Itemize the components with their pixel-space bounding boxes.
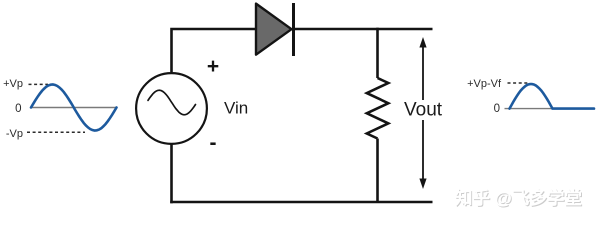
diode D1 triangle — [256, 4, 292, 55]
resistor branch upper wire — [376, 28, 379, 78]
svg-text:+Vp-Vf: +Vp-Vf — [467, 78, 502, 90]
svg-text:-Vp: -Vp — [6, 128, 23, 140]
dashed leader to +Vp level — [29, 83, 49, 85]
dashed leader to +Vp-Vf level — [508, 82, 530, 84]
Vout arrowhead down — [419, 179, 426, 190]
wire: top rail right of diode to right end — [294, 28, 433, 31]
svg-text:0: 0 — [494, 103, 500, 115]
svg-text:+Vp: +Vp — [3, 78, 23, 90]
output waveform axis — [505, 108, 595, 110]
wire: bottom-left vertical — [170, 144, 173, 203]
wire: top-left vertical + top rail left of diode — [172, 29, 256, 72]
dashed leader to -Vp level — [27, 131, 85, 133]
wire: bottom rail — [170, 201, 432, 204]
Vout measure arrow shaft (segmented) — [422, 46, 424, 180]
svg-text:知乎 @飞多学堂: 知乎 @飞多学堂 — [455, 188, 582, 208]
svg-text:-: - — [210, 132, 217, 155]
svg-text:+: + — [207, 55, 219, 78]
output rectified half-sine — [510, 84, 595, 109]
input waveform axis — [31, 107, 118, 109]
svg-text:0: 0 — [15, 103, 21, 115]
svg-text:Vout: Vout — [404, 100, 443, 121]
svg-text:Vin: Vin — [224, 99, 248, 118]
resistor branch lower wire — [376, 139, 379, 204]
input sine wave — [31, 85, 117, 131]
source inner sine symbol — [148, 90, 196, 115]
Vout arrowhead up — [419, 37, 426, 48]
diode D1 cathode bar — [292, 3, 295, 56]
resistor R1 zigzag — [367, 78, 389, 139]
source V1 circle — [136, 73, 207, 144]
